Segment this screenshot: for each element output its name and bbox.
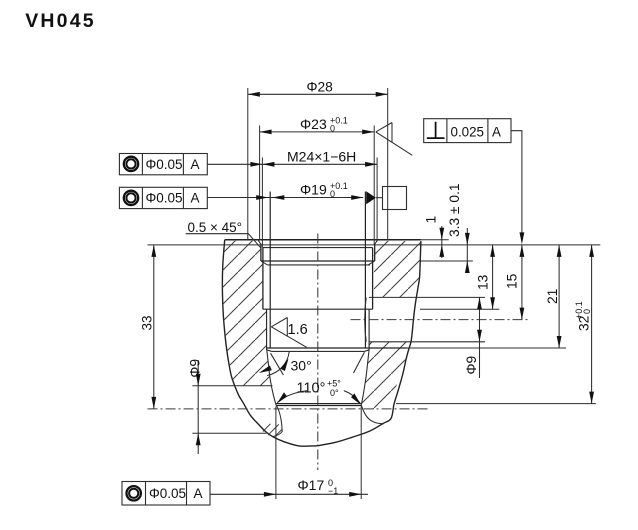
datum feature triangle	[366, 191, 376, 204]
30° cone stub left	[271, 353, 284, 375]
entrance chamfer right	[374, 240, 377, 244]
Φ23 counterbore right wall	[374, 245, 376, 261]
svg-text:15: 15	[505, 273, 520, 289]
svg-text:A: A	[194, 486, 203, 501]
svg-text:0°: 0°	[330, 388, 339, 398]
angle 110° +5/0	[277, 379, 361, 405]
thread chamfer diagonals	[261, 261, 374, 265]
roughness 1.6 symbol	[271, 318, 307, 348]
svg-text:A: A	[492, 125, 501, 140]
M24 ext left (minor)	[261, 158, 263, 248]
part left silhouette	[222, 240, 317, 446]
Φ19 bore left line	[269, 192, 271, 349]
svg-text:Φ17: Φ17	[298, 477, 325, 493]
svg-text:A: A	[191, 157, 200, 172]
svg-text:1: 1	[424, 216, 439, 224]
concentricity frame 3	[122, 482, 210, 506]
svg-text:3.3 ± 0.1: 3.3 ± 0.1	[447, 183, 462, 237]
bore bottom right extension	[408, 347, 567, 349]
top face left leader shelf (0.5x45)	[186, 234, 261, 248]
cross hole axis dash-dot	[351, 319, 529, 321]
dim 21	[545, 245, 562, 348]
svg-text:M24×1−6H: M24×1−6H	[287, 148, 356, 164]
dim 3.3±0.1	[447, 183, 470, 273]
Φ17 chord upper	[276, 403, 361, 405]
thread end line y=309.2	[263, 308, 373, 310]
thread chamfer line y=264.9	[268, 264, 371, 266]
cross hole far-side arc	[365, 297, 367, 341]
thread minor right wall	[372, 248, 374, 310]
counterbore bottom y=261	[261, 260, 375, 262]
svg-text:0: 0	[330, 124, 335, 134]
Φ17 chord lower	[276, 405, 361, 407]
svg-text:Φ19: Φ19	[300, 182, 327, 198]
dim Φ9 left	[187, 359, 202, 454]
svg-text:Φ9: Φ9	[187, 359, 202, 378]
svg-text:33: 33	[140, 315, 155, 330]
svg-text:0.025: 0.025	[451, 125, 485, 140]
svg-text:−1: −1	[328, 486, 338, 496]
hatch right wall upper	[374, 241, 421, 298]
30° cone stub right	[354, 352, 365, 373]
countersink back edge right	[361, 405, 383, 424]
left hole bottom edge	[192, 432, 266, 434]
chord right extension to 32 dim	[396, 403, 596, 405]
concentricity frame 1	[119, 154, 207, 175]
surface symbol on Φ23 ext	[376, 123, 413, 156]
svg-text:Φ0.05: Φ0.05	[146, 191, 183, 206]
part right silhouette	[317, 241, 421, 446]
top face	[225, 239, 421, 241]
Φ23 ext right	[373, 126, 375, 245]
countersink curve left	[267, 351, 276, 406]
BOTTOM DIM Φ17	[210, 407, 368, 500]
dim 13	[476, 245, 496, 309]
hatch bottom-left sliver	[263, 424, 282, 436]
dim Φ28	[248, 80, 388, 97]
bore step right wall	[365, 309, 370, 351]
dim Φ23 +0.1/0	[260, 116, 375, 135]
hatch left wall	[222, 241, 272, 386]
Φ19 bore right line	[364, 192, 366, 349]
perpendicularity frame	[424, 119, 511, 143]
svg-text:VH045: VH045	[25, 10, 96, 32]
svg-text:Φ28: Φ28	[307, 80, 334, 95]
svg-text:Φ23: Φ23	[300, 116, 327, 132]
concentricity frame 2	[119, 187, 207, 208]
bore line y=244.9 long reference	[148, 244, 601, 246]
dim 32 +0.1/0	[574, 245, 594, 404]
dim M24x1-6H with leader from frame	[207, 148, 377, 166]
Φ28 ext right	[387, 88, 389, 240]
bore line y=247.6	[263, 247, 373, 249]
dim 33	[140, 245, 157, 409]
bore bottom y=348	[267, 347, 408, 349]
svg-text:0.5 × 45°: 0.5 × 45°	[188, 220, 243, 235]
sphere center dash-dot	[148, 408, 429, 410]
dim Φ19 +0.1/0 with leader from frame	[207, 181, 363, 200]
svg-text:Φ0.05: Φ0.05	[146, 157, 183, 172]
datum box	[376, 197, 383, 199]
svg-text:0: 0	[582, 309, 592, 314]
Φ28 ext left	[247, 88, 249, 240]
hatch right wall lower	[362, 342, 410, 413]
thread end right extension	[420, 308, 499, 310]
svg-text:A: A	[191, 191, 200, 206]
dim 1	[424, 216, 445, 258]
M24 ext right (major)	[376, 158, 378, 242]
svg-text:1.6: 1.6	[288, 322, 308, 338]
counterbore bottom right extension	[421, 260, 473, 262]
angle 30°	[259, 352, 312, 376]
perpendicularity leader	[511, 131, 522, 233]
svg-text:110°: 110°	[297, 381, 326, 397]
entrance chamfer left	[258, 240, 261, 244]
cross hole top edge + extension	[369, 296, 485, 298]
thread minor left wall	[262, 248, 264, 310]
svg-text:30°: 30°	[291, 358, 312, 374]
countersink back edge left	[273, 406, 282, 437]
bore step left wall	[267, 309, 272, 351]
left hole top edge	[192, 385, 272, 387]
bore bottom lower line y=351.4	[272, 350, 365, 352]
svg-text:21: 21	[545, 289, 560, 304]
Φ23 ext left	[259, 126, 261, 240]
Φ23 counterbore left wall	[260, 245, 262, 261]
svg-text:0: 0	[330, 189, 335, 199]
top face right extension	[421, 239, 449, 241]
svg-text:13: 13	[476, 274, 491, 290]
dim 15	[505, 245, 525, 320]
svg-text:+5°: +5°	[327, 379, 341, 389]
svg-text:Φ0.05: Φ0.05	[149, 486, 186, 501]
countersink curve right	[361, 351, 369, 405]
svg-text:Φ9: Φ9	[464, 355, 479, 374]
dim Φ9 right	[464, 297, 482, 378]
centerline vertical	[317, 234, 319, 471]
cross hole bottom edge + extension	[370, 341, 486, 343]
